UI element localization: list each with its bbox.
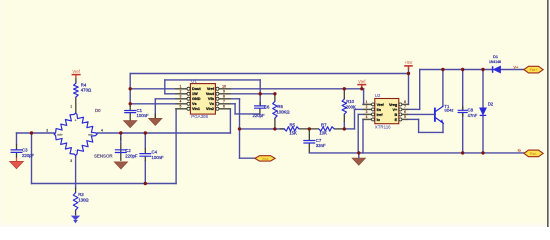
- wire V+ pin wire: [408, 108, 420, 110]
- wire up to emitter: [442, 123, 444, 132]
- wire top rail to D1: [420, 69, 493, 71]
- op-amp U1 PGA308 body: [190, 84, 215, 115]
- wire +5V rail top: [130, 73, 408, 75]
- svg-text:47nF: 47nF: [468, 113, 478, 118]
- wire down to Vout net / C6 top: [259, 80, 261, 106]
- junction C8 rail: [461, 68, 464, 71]
- diode D2: [480, 108, 487, 115]
- junction Vref symbol: [360, 87, 363, 90]
- wire node to Iin riser: [344, 128, 354, 130]
- svg-text:D1: D1: [493, 54, 499, 59]
- U2 pin 1 (Vref): [363, 103, 372, 105]
- svg-text:+: +: [75, 119, 77, 123]
- wire feedback line left: [240, 128, 285, 130]
- svg-text:4: 4: [366, 115, 368, 119]
- svg-text:220pF: 220pF: [125, 153, 138, 158]
- capacitor C8 47nF: [458, 110, 467, 112]
- svg-text:9: 9: [223, 90, 225, 94]
- lead GND stub lead: [154, 114, 156, 119]
- wire Vfb drop: [239, 99, 241, 158]
- wire to U1 pin1: [130, 88, 175, 90]
- svg-text:1: 1: [180, 85, 182, 89]
- capacitor C4 100nF: [140, 154, 151, 157]
- junction Vout/C6: [259, 92, 262, 95]
- svg-text:Vref: Vref: [377, 103, 385, 107]
- svg-text:6: 6: [404, 110, 406, 114]
- wire C3 top lead: [16, 133, 18, 144]
- junction C4 bottom: [144, 182, 147, 185]
- wire C1 vertical / Vs net: [129, 74, 131, 107]
- junction C1/pin1: [129, 87, 132, 90]
- op-amp U2 XTR116 body: [375, 99, 399, 124]
- svg-text:1N4148: 1N4148: [489, 60, 501, 64]
- resistor R3 130R: [73, 193, 78, 211]
- svg-text:R3: R3: [78, 192, 84, 197]
- svg-text:C6: C6: [264, 105, 270, 110]
- wire U1 pin3 GND stub wire: [155, 98, 175, 100]
- resistor R5 15K: [284, 127, 299, 131]
- wire bridge left wire: [17, 132, 55, 134]
- svg-text:100nF: 100nF: [137, 113, 150, 118]
- svg-text:8: 8: [404, 100, 406, 104]
- lead C3 top dark lead: [16, 144, 18, 150]
- svg-text:470Ω: 470Ω: [81, 88, 92, 93]
- capacitor C2 220pF: [115, 150, 126, 153]
- wire D2 bottom lead: [482, 115, 484, 152]
- svg-text:B: B: [394, 113, 397, 117]
- svg-text:Iin: Iin: [377, 108, 382, 112]
- junction C2 top: [119, 131, 122, 134]
- lead C3 bottom lead: [16, 153, 18, 159]
- ground brown at U2: [352, 158, 365, 165]
- U1 pin 5 (Vin1): [175, 108, 187, 110]
- lead C8 top lead: [462, 106, 464, 110]
- wire pin4 Io wire: [362, 118, 364, 120]
- wire: [407, 103, 409, 105]
- wire R10 bottom wire: [343, 122, 345, 129]
- junction C7 node: [308, 127, 311, 130]
- svg-text:out-: out-: [88, 133, 93, 137]
- lead R4 bottom lead: [75, 97, 77, 113]
- capacitor C3 220pF: [11, 150, 22, 153]
- svg-text:Vs: Vs: [192, 102, 197, 106]
- wire C8 top lead: [462, 70, 464, 111]
- bridge sensor D0 arm bottom-left: [54, 134, 75, 155]
- junction Vref/R10: [343, 87, 346, 90]
- lead R3 bottom lead: [75, 210, 77, 216]
- svg-text:7: 7: [223, 100, 225, 104]
- ground (earth) red at C3: [16, 158, 18, 162]
- svg-text:R7: R7: [321, 123, 327, 128]
- svg-text:15K: 15K: [289, 131, 297, 136]
- wire D2 top lead: [482, 70, 484, 108]
- wire to U1 pin2: [165, 93, 175, 95]
- svg-text:Iref: Iref: [377, 113, 384, 117]
- lead C8 bottom lead: [462, 113, 464, 117]
- svg-text:D2: D2: [488, 101, 494, 106]
- junction collector rail: [441, 68, 444, 71]
- svg-text:130Ω: 130Ω: [78, 197, 89, 202]
- svg-text:C3: C3: [22, 147, 28, 152]
- lead R7 right lead: [334, 128, 344, 130]
- svg-text:5: 5: [404, 115, 406, 119]
- wire Iref drop: [357, 114, 359, 152]
- svg-text:SENSOR: SENSOR: [94, 153, 113, 158]
- svg-text:Io: Io: [518, 147, 521, 152]
- wire pin7 to C6 bottom: [235, 113, 260, 115]
- wire Vref down to U2 pin1: [363, 89, 365, 105]
- junction bridge-left/loop: [30, 131, 33, 134]
- U1 pin 2 (1W): [175, 93, 187, 95]
- svg-text:8: 8: [223, 95, 225, 99]
- svg-text:10K: 10K: [319, 131, 327, 136]
- lead R5-R7 leads: [299, 128, 319, 130]
- svg-text:Vref: Vref: [207, 87, 215, 91]
- lead R6 bottom lead: [274, 118, 276, 129]
- wire C4 top lead: [144, 133, 146, 148]
- svg-text:Pwr+: Pwr+: [530, 68, 538, 72]
- junction D2 rail: [481, 68, 484, 71]
- capacitor C6 220pF: [255, 106, 266, 108]
- svg-text:4: 4: [180, 100, 182, 104]
- power Vref (near U2): [357, 84, 366, 86]
- wire E bottom run: [419, 131, 443, 133]
- lead R3 top lead: [75, 188, 77, 193]
- power ground arrow at R3: [71, 216, 80, 221]
- bridge sensor D0 arm top-right: [76, 113, 97, 134]
- U2 pin 7 (V+): [402, 108, 408, 110]
- svg-text:3: 3: [366, 110, 368, 114]
- svg-text:5: 5: [180, 105, 182, 109]
- transistor T1: [434, 108, 436, 121]
- wire bottom rail to port: [363, 152, 524, 154]
- wire Vin2 rise: [229, 109, 231, 133]
- wire gnd triangle stub: [358, 153, 360, 158]
- svg-text:2: 2: [366, 105, 368, 109]
- wire V+ riser: [419, 70, 421, 110]
- wire Vref symbol stub: [361, 85, 363, 89]
- svg-text:1: 1: [366, 100, 368, 104]
- svg-text:PGA308: PGA308: [191, 114, 208, 119]
- svg-text:C2: C2: [125, 148, 131, 153]
- wire to Vout port: [240, 157, 255, 159]
- wire analog ground run: [309, 152, 363, 154]
- junction Vout/R6: [273, 92, 276, 95]
- svg-text:Vreg: Vreg: [389, 103, 398, 107]
- ground brown at C2: [114, 162, 127, 169]
- U2 pin 4 (Io): [363, 118, 372, 120]
- svg-text:33nF: 33nF: [316, 143, 326, 148]
- wire Vref long wire: [231, 88, 364, 90]
- U1 pin 1 (Dout): [175, 88, 187, 90]
- resistor R4 470R: [74, 83, 79, 97]
- svg-text:200K: 200K: [346, 105, 356, 110]
- svg-text:220pF: 220pF: [22, 153, 35, 158]
- ground brown at C1: [124, 121, 137, 128]
- wire U1 pin8 wire: [231, 98, 240, 100]
- wire U1 pin1/pin2 link vertical: [164, 80, 166, 94]
- svg-text:Pwr-: Pwr-: [530, 152, 537, 156]
- wire 1W over-chip wire: [165, 79, 260, 81]
- wire Iin riser: [354, 109, 356, 128]
- svg-text:R5: R5: [290, 123, 296, 128]
- svg-text:1W: 1W: [192, 92, 198, 96]
- junction C8 bottom: [461, 151, 464, 154]
- svg-text:Vref: Vref: [358, 79, 366, 84]
- wire U2 Io drop: [362, 119, 364, 152]
- ground brown at U1 pin3: [149, 118, 162, 125]
- wire bottom loop: [32, 183, 177, 185]
- svg-text:SD42: SD42: [444, 109, 453, 113]
- lead C1 top dark lead: [129, 106, 131, 110]
- sheet border line: [547, 0, 549, 227]
- wire C8 bottom lead: [462, 113, 464, 153]
- svg-text:D0: D0: [95, 108, 101, 113]
- wire into Iin pin: [355, 108, 363, 110]
- lead C6 bottom lead: [259, 108, 261, 114]
- power Vref (left): [72, 74, 81, 76]
- power +5V: [404, 65, 413, 67]
- svg-text:XTR116: XTR116: [375, 125, 391, 130]
- bridge sensor D0 arm bottom-right: [76, 134, 97, 155]
- svg-text:out+: out+: [57, 133, 63, 137]
- svg-text:+5V: +5V: [405, 60, 413, 65]
- lead R4 top lead: [75, 78, 77, 83]
- svg-text:Vfb: Vfb: [208, 97, 215, 101]
- wire E drop: [418, 119, 420, 132]
- U1 pin 3 (GND): [175, 98, 187, 100]
- wire U1 pin5 Vin1 drop: [175, 109, 177, 184]
- lead R10 bottom lead: [343, 114, 345, 122]
- U1 pin 8 (Vfb): [219, 98, 231, 100]
- wire pin7 drop: [234, 104, 236, 114]
- lead C1 bottom lead: [129, 113, 131, 121]
- wire U1 pin9 Vout wire: [231, 93, 275, 95]
- lead R6 top lead: [274, 94, 276, 101]
- U1 pin 10 (Vref): [219, 88, 231, 90]
- svg-text:V+: V+: [513, 65, 519, 70]
- wire C4 bottom lead: [144, 161, 146, 184]
- lead C7 top lead: [308, 129, 310, 140]
- wire bridge right wire to Vin2: [97, 132, 230, 134]
- U1 pin 9 (Vout): [219, 93, 231, 95]
- resistor R6 100K: [273, 101, 277, 118]
- lead C7 bottom lead: [308, 143, 310, 152]
- svg-text:7: 7: [404, 105, 406, 109]
- port Vout (left): [255, 156, 275, 161]
- wire base wire: [408, 113, 434, 115]
- lead C4 bottom lead: [144, 156, 146, 161]
- lead R10 top lead: [343, 90, 345, 100]
- U1 pin 6 (Vin2): [219, 108, 231, 110]
- wire Vreg riser: [408, 74, 410, 105]
- transistor T1 emitter arrow: [440, 119, 444, 123]
- svg-text:Vout: Vout: [262, 157, 269, 161]
- svg-text:3: 3: [70, 159, 72, 163]
- junction R6 bottom: [273, 127, 276, 130]
- wire: [259, 105, 261, 107]
- junction D2 bottom: [481, 151, 484, 154]
- port Io- (bottom right): [524, 150, 543, 157]
- lead R5 left lead: [280, 128, 285, 130]
- junction C4 top: [144, 131, 147, 134]
- svg-text:6: 6: [223, 105, 225, 109]
- U2 pin 3 (Iref): [363, 113, 372, 115]
- wire E pin wire: [408, 118, 418, 120]
- junction C1/pin4: [129, 102, 132, 105]
- wire bridge bottom to R3: [75, 156, 77, 189]
- U2 pin 8 (Vreg): [402, 103, 408, 105]
- wire: [362, 103, 365, 105]
- svg-text:Vin2: Vin2: [206, 107, 214, 111]
- wire +5V symbol stub: [408, 66, 410, 74]
- svg-text:Vref: Vref: [72, 69, 80, 74]
- svg-text:2: 2: [46, 129, 48, 133]
- U1 pin 7 (Vx): [219, 103, 231, 105]
- capacitor C7 33nF: [304, 141, 315, 144]
- wire collector riser: [442, 70, 444, 107]
- svg-text:1: 1: [70, 105, 72, 109]
- svg-text:3: 3: [180, 95, 182, 99]
- junction gnd node: [357, 151, 360, 154]
- lead C4 top dark lead: [144, 148, 146, 153]
- junction +5V corner: [407, 72, 410, 75]
- U1 pin 4 (Vs): [175, 103, 187, 105]
- svg-text:V+: V+: [392, 108, 398, 112]
- svg-text:U2: U2: [375, 93, 381, 98]
- U2 pin 2 (Iin): [363, 108, 372, 110]
- diode D1 1N4148: [492, 66, 494, 73]
- wire GND drop: [154, 99, 156, 119]
- svg-text:Vin1: Vin1: [192, 107, 200, 111]
- lead C2 bottom lead: [120, 143, 122, 161]
- lead C6 top lead: [259, 102, 261, 106]
- svg-text:4: 4: [101, 129, 103, 133]
- wire left drop to loop: [31, 133, 33, 184]
- svg-text:100KΩ: 100KΩ: [276, 109, 290, 114]
- lead C2 top lead: [120, 137, 122, 141]
- resistor R7 10K: [319, 127, 335, 131]
- svg-text:Dout: Dout: [192, 87, 201, 91]
- wire D1 to V+ port: [501, 69, 524, 71]
- junction Vfb/feedback: [238, 127, 241, 130]
- wire C2 top lead: [120, 133, 122, 143]
- svg-text:10: 10: [222, 85, 226, 89]
- svg-text:R10: R10: [346, 99, 354, 104]
- resistor R10 200K: [342, 99, 346, 114]
- port V+ (top right): [524, 66, 543, 73]
- U2 pin 6 (B): [402, 113, 408, 115]
- wire to U1 pin4 Vs: [130, 103, 175, 105]
- bridge sensor D0 arm top-left: [54, 113, 75, 134]
- svg-text:U1: U1: [191, 78, 197, 83]
- svg-text:-: -: [75, 148, 76, 152]
- svg-text:Vout: Vout: [206, 92, 215, 96]
- junction R10/R7 node: [343, 127, 346, 130]
- wire pin3 Iref wire: [358, 113, 363, 115]
- capacitor C1 100nF: [125, 111, 136, 113]
- svg-text:2: 2: [180, 90, 182, 94]
- U2 pin 5 (E): [402, 118, 408, 120]
- svg-text:R6: R6: [277, 104, 283, 109]
- svg-text:100nF: 100nF: [152, 155, 165, 160]
- wire U1 pin7 wire: [231, 103, 235, 105]
- svg-text:220pF: 220pF: [253, 113, 266, 118]
- svg-text:GND: GND: [192, 97, 201, 101]
